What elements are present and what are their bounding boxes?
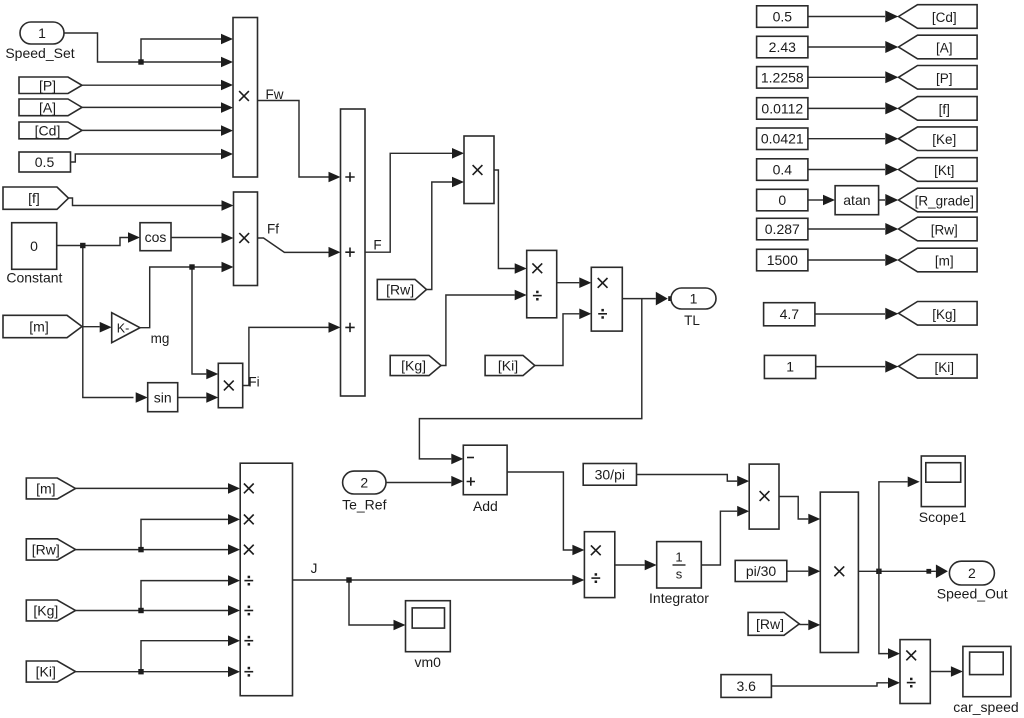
wire [Kg] to ProductJ in5 bbox=[76, 610, 229, 612]
from tag [m] lower bbox=[26, 478, 75, 499]
wire 0.5 to [Cd] bbox=[808, 16, 885, 18]
constant 30/pi bbox=[583, 464, 636, 486]
constant 3.6 bbox=[721, 675, 771, 698]
svg-text:K-: K- bbox=[117, 322, 130, 336]
wire [Ki] to ProductKi in2 bbox=[535, 314, 580, 366]
svg-text:1: 1 bbox=[786, 359, 794, 375]
product ProductAcc multiply-divide bbox=[584, 532, 614, 598]
svg-text:Integrator: Integrator bbox=[649, 590, 709, 606]
svg-text:1: 1 bbox=[675, 550, 682, 565]
inport Te_Ref bbox=[343, 471, 386, 494]
wire [P] to Product1 in3 bbox=[82, 84, 222, 86]
wire Add to ProductAcc in1 bbox=[507, 472, 572, 550]
svg-text:car_speed: car_speed bbox=[953, 699, 1018, 715]
scope car_speed bbox=[963, 646, 1011, 696]
junction J branch bbox=[346, 577, 351, 582]
goto tag [Kg] bbox=[899, 302, 978, 326]
goto tag [Ki] bbox=[899, 355, 978, 379]
product ProductRw multiply-divide bbox=[527, 250, 557, 317]
constant 0 Constant bbox=[12, 223, 57, 270]
wire [Cd] to Product1 in5 bbox=[82, 129, 222, 131]
svg-text:4.7: 4.7 bbox=[780, 306, 800, 322]
svg-text:[m]: [m] bbox=[36, 480, 55, 496]
svg-text:1: 1 bbox=[38, 25, 46, 41]
svg-text:Speed_Out: Speed_Out bbox=[937, 586, 1008, 602]
svg-text:0.4: 0.4 bbox=[773, 162, 793, 178]
wire ProductFR to ProductRw in1 bbox=[494, 170, 515, 269]
wire atan to [R_grade] bbox=[879, 199, 885, 201]
constant 1500 for goto [m] bbox=[757, 249, 808, 270]
wire Te_Ref to Add in2 bbox=[386, 482, 451, 484]
svg-text:0.5: 0.5 bbox=[773, 9, 793, 25]
wire ProductKmh to scope car_speed bbox=[930, 671, 951, 673]
junction mg branch bbox=[189, 264, 194, 269]
wire [f] to ProductFf in1 bbox=[69, 198, 222, 206]
from tag [f] bbox=[3, 187, 69, 209]
svg-text:Te_Ref: Te_Ref bbox=[342, 497, 386, 513]
from tag [Kg] lower bbox=[26, 600, 75, 621]
scope vm0 bbox=[406, 601, 451, 652]
wire Speed_Set to Product1 in2 bbox=[64, 33, 222, 62]
constant 0.5 left bbox=[19, 152, 71, 172]
svg-text:1.2258: 1.2258 bbox=[761, 69, 804, 85]
svg-text:0.0112: 0.0112 bbox=[761, 100, 803, 116]
svg-text:[Cd]: [Cd] bbox=[35, 122, 61, 138]
from tag [Rw] lower bbox=[26, 539, 75, 560]
svg-text:mg: mg bbox=[151, 331, 170, 346]
wire [A] to Product1 in4 bbox=[82, 106, 222, 108]
svg-text:[Kt]: [Kt] bbox=[934, 163, 954, 178]
sum Add3 vertical bbox=[341, 109, 366, 396]
product ProductFR two-input bbox=[464, 136, 494, 204]
svg-text:2: 2 bbox=[360, 475, 368, 491]
svg-text:[Rw]: [Rw] bbox=[32, 541, 60, 557]
svg-text:0.287: 0.287 bbox=[765, 221, 800, 237]
wire F to ProductFR in1 bbox=[365, 153, 452, 252]
wire 0.4 to [Kt] bbox=[808, 169, 885, 171]
wire TL branch down to Add in1 bbox=[419, 299, 641, 459]
junction [Rw] branch bbox=[138, 547, 143, 552]
constant 0.0421 for goto [Ke] bbox=[757, 128, 808, 150]
svg-text:[Cd]: [Cd] bbox=[932, 10, 957, 25]
product ProductKmh multiply-divide bbox=[900, 640, 930, 704]
wire cos to ProductFf in2 bbox=[171, 237, 222, 239]
wire 4.7 to [Kg] bbox=[815, 313, 885, 315]
wire 0 to cos bbox=[57, 238, 128, 246]
svg-text:[P]: [P] bbox=[936, 71, 953, 86]
svg-text:cos: cos bbox=[145, 229, 167, 245]
svg-text:[A]: [A] bbox=[39, 99, 56, 115]
constant 0.4 for goto [Kt] bbox=[757, 159, 808, 181]
outport Speed_Out bbox=[949, 561, 994, 585]
svg-text:Ff: Ff bbox=[267, 222, 279, 237]
wire 1 to [Ki] bbox=[816, 366, 885, 368]
from tag [m] upper bbox=[3, 315, 82, 337]
from tag [P] bbox=[19, 77, 82, 94]
wire [Kg] to ProductRw in2 bbox=[441, 295, 515, 366]
svg-text:0: 0 bbox=[30, 238, 38, 254]
junction Speed_Out branch bbox=[876, 569, 881, 574]
wire 0.0421 to [Ke] bbox=[808, 138, 885, 140]
from tag [Cd] bbox=[19, 122, 82, 139]
svg-text:2.43: 2.43 bbox=[769, 39, 796, 55]
sum Add block bbox=[463, 445, 507, 495]
outport TL bbox=[671, 288, 716, 309]
svg-text:0.5: 0.5 bbox=[35, 154, 55, 170]
wire [m] to gain bbox=[82, 326, 100, 328]
constant 2.43 for goto [A] bbox=[757, 36, 808, 58]
product ProductKi multiply-divide bbox=[591, 267, 622, 331]
junction Speed_Set branch bbox=[138, 59, 143, 64]
svg-text:[R_grade]: [R_grade] bbox=[915, 194, 974, 209]
svg-text:sin: sin bbox=[154, 389, 172, 405]
product ProductJ seven-input bbox=[240, 463, 292, 696]
wire sin to ProductFi in2 bbox=[178, 397, 207, 399]
svg-text:pi/30: pi/30 bbox=[746, 563, 777, 579]
wire branch down to ProductKmh in1 bbox=[879, 571, 888, 653]
svg-text:[Kg]: [Kg] bbox=[401, 358, 426, 374]
constant 0.5 for goto [Cd] bbox=[757, 6, 808, 28]
junction [Kg] branch bbox=[138, 608, 143, 613]
svg-text:vm0: vm0 bbox=[414, 654, 441, 670]
port square TL bbox=[668, 296, 673, 301]
svg-text:[Ke]: [Ke] bbox=[932, 132, 956, 147]
constant 1 for goto [Ki] bbox=[764, 355, 815, 378]
wire J branch to scope vm0 bbox=[349, 580, 394, 625]
sin block bbox=[148, 383, 178, 412]
wire ProductAcc to Integrator bbox=[615, 564, 645, 566]
from tag [Rw] middle bbox=[377, 279, 426, 299]
goto tag [Rw] bbox=[899, 217, 978, 241]
wire branch up to Scope1 bbox=[879, 482, 908, 572]
goto tag [A] bbox=[899, 35, 978, 59]
svg-text:[A]: [A] bbox=[936, 41, 953, 56]
constant 0 for goto [R_grade] bbox=[757, 189, 808, 211]
svg-text:[m]: [m] bbox=[29, 319, 48, 335]
svg-text:[Rw]: [Rw] bbox=[756, 616, 784, 632]
port square Speed_Out bbox=[926, 569, 931, 574]
wire [Rw] to ProductJ in3 bbox=[76, 549, 229, 551]
wire branch to Product1 in1 bbox=[141, 39, 222, 62]
from tag [Kg] middle bbox=[390, 355, 441, 375]
wire 0.0112 to [f] bbox=[808, 107, 885, 109]
from tag [Ki] lower bbox=[26, 661, 75, 682]
wire Integrator to ProductRPM in2 bbox=[701, 511, 737, 565]
svg-text:Constant: Constant bbox=[6, 270, 62, 286]
svg-text:[f]: [f] bbox=[28, 190, 40, 206]
scope Scope1 bbox=[921, 456, 965, 507]
wire J to ProductAcc in2 bbox=[293, 579, 573, 581]
constant 1.2258 for goto [P] bbox=[757, 67, 808, 89]
svg-text:[Kg]: [Kg] bbox=[33, 602, 58, 618]
wire [Ki] branch to ProductJ in6 bbox=[141, 641, 228, 672]
svg-text:[Ki]: [Ki] bbox=[36, 664, 56, 680]
junction constant0 branch bbox=[80, 243, 85, 248]
wire [m] to ProductJ in1 bbox=[76, 487, 229, 489]
svg-text:Fi: Fi bbox=[248, 375, 259, 390]
svg-text:0.0421: 0.0421 bbox=[761, 131, 804, 147]
wire [Ki] to ProductJ in7 bbox=[76, 671, 229, 673]
goto tag [f] bbox=[899, 97, 978, 121]
svg-text:30/pi: 30/pi bbox=[595, 467, 625, 483]
constant pi/30 bbox=[735, 560, 787, 581]
wire ProductRw to ProductKi in1 bbox=[557, 282, 580, 284]
wire 0.287 to [Rw] bbox=[808, 228, 885, 230]
constant 0.0112 for goto [f] bbox=[757, 98, 808, 120]
gain K- triangle bbox=[112, 313, 140, 343]
wire TL output bbox=[622, 298, 655, 300]
goto tag [R_grade] bbox=[899, 188, 978, 212]
product ProductFf three-input bbox=[234, 192, 258, 286]
wire 2.43 to [A] bbox=[808, 46, 885, 48]
from tag [A] bbox=[19, 99, 82, 116]
svg-text:Add: Add bbox=[473, 498, 498, 514]
wire [Rw] to ProductFR in2 bbox=[427, 182, 453, 290]
svg-text:Fw: Fw bbox=[266, 87, 284, 102]
goto tag [P] bbox=[899, 66, 978, 90]
goto tag [m] bbox=[899, 248, 978, 272]
wire [Kg] branch to ProductJ in4 bbox=[141, 581, 228, 611]
constant 0.287 for goto [Rw] bbox=[757, 218, 808, 240]
svg-text:Speed_Set: Speed_Set bbox=[5, 45, 74, 61]
wire 1500 to [m] bbox=[808, 259, 885, 261]
svg-text:[P]: [P] bbox=[39, 77, 56, 93]
from tag [Rw] bottom bbox=[748, 612, 799, 635]
svg-text:[Kg]: [Kg] bbox=[932, 307, 956, 322]
svg-text:J: J bbox=[311, 561, 318, 576]
inport Speed_Set bbox=[20, 22, 64, 44]
svg-text:s: s bbox=[676, 567, 683, 582]
junction [Ki] branch bbox=[138, 669, 143, 674]
wire branch down to ProductFi in1 bbox=[192, 267, 206, 374]
svg-text:atan: atan bbox=[843, 192, 870, 208]
constant 4.7 for goto [Kg] bbox=[764, 303, 815, 326]
product ProductRPM two-input bbox=[749, 464, 779, 529]
wire 1.2258 to [P] bbox=[808, 76, 885, 78]
wire 0 branch down to sin bbox=[83, 246, 134, 398]
wire pi/30 to ProductOut in2 bbox=[787, 570, 809, 572]
goto tag [Cd] bbox=[899, 5, 978, 29]
product ProductOut three-input bbox=[820, 492, 858, 652]
wire Fi to Add3 in3 bbox=[243, 327, 329, 385]
wire gain to ProductFf in3 bbox=[140, 267, 222, 328]
svg-text:1500: 1500 bbox=[767, 252, 798, 268]
svg-text:Scope1: Scope1 bbox=[919, 509, 967, 525]
wire 0.5 to Product1 in6 bbox=[71, 154, 222, 162]
wire Fw to Add3 in1 bbox=[258, 101, 329, 178]
svg-text:[Rw]: [Rw] bbox=[931, 223, 958, 238]
svg-text:0: 0 bbox=[778, 192, 786, 208]
cos block bbox=[140, 223, 171, 251]
goto tag [Kt] bbox=[899, 158, 978, 182]
wire Ff diagonal to Add3 in2 bbox=[258, 238, 329, 252]
svg-text:[m]: [m] bbox=[935, 254, 954, 269]
svg-text:2: 2 bbox=[968, 565, 976, 581]
product ProductFi bbox=[218, 363, 242, 407]
wire ProductRPM to ProductOut in1 bbox=[779, 497, 808, 520]
from tag [Ki] middle bbox=[485, 355, 535, 375]
svg-text:[Ki]: [Ki] bbox=[935, 360, 955, 375]
wire 30/pi to ProductRPM in1 bbox=[637, 475, 738, 482]
svg-text:F: F bbox=[373, 238, 381, 253]
goto tag [Ke] bbox=[899, 127, 978, 151]
atan block bbox=[835, 186, 879, 215]
svg-text:[Ki]: [Ki] bbox=[498, 358, 518, 374]
svg-text:TL: TL bbox=[684, 313, 700, 328]
svg-text:3.6: 3.6 bbox=[736, 678, 756, 694]
wire [Rw] to ProductOut in3 bbox=[799, 624, 808, 626]
wire ProductOut to Speed_Out bbox=[858, 570, 936, 572]
wire [Rw] branch to ProductJ in2 bbox=[141, 519, 228, 549]
wire 3.6 to ProductKmh in2 bbox=[771, 683, 888, 686]
svg-text:[Rw]: [Rw] bbox=[386, 282, 414, 298]
product Product1 six-input bbox=[233, 18, 258, 178]
integrator 1/s bbox=[657, 542, 702, 588]
svg-text:1: 1 bbox=[690, 291, 698, 307]
svg-text:[f]: [f] bbox=[939, 102, 950, 117]
wire 0 to atan bbox=[808, 199, 823, 201]
